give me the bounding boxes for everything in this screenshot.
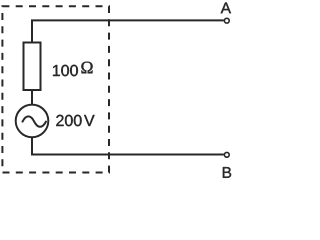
terminal A (open circle) (224, 18, 229, 23)
dashed enclosure box (2, 6, 109, 172)
omega glyph (serif) of 100 Ω (81, 62, 92, 74)
terminal B (open circle) (224, 152, 229, 157)
value label 100 Ω (53, 65, 78, 76)
wire: top run from internal node to terminal A (32, 20, 224, 42)
unit V of 200 V (84, 115, 95, 126)
node label B (223, 167, 231, 178)
value label 200 V (56, 115, 81, 126)
wire: resistor to source (31, 90, 33, 105)
node label A (221, 3, 231, 14)
wire: source to bottom run, to terminal B (32, 137, 224, 155)
resistor R (100 ohm) (24, 43, 41, 91)
ac voltage source V1 (200 V) (16, 105, 49, 138)
sine symbol inside source (23, 116, 47, 126)
